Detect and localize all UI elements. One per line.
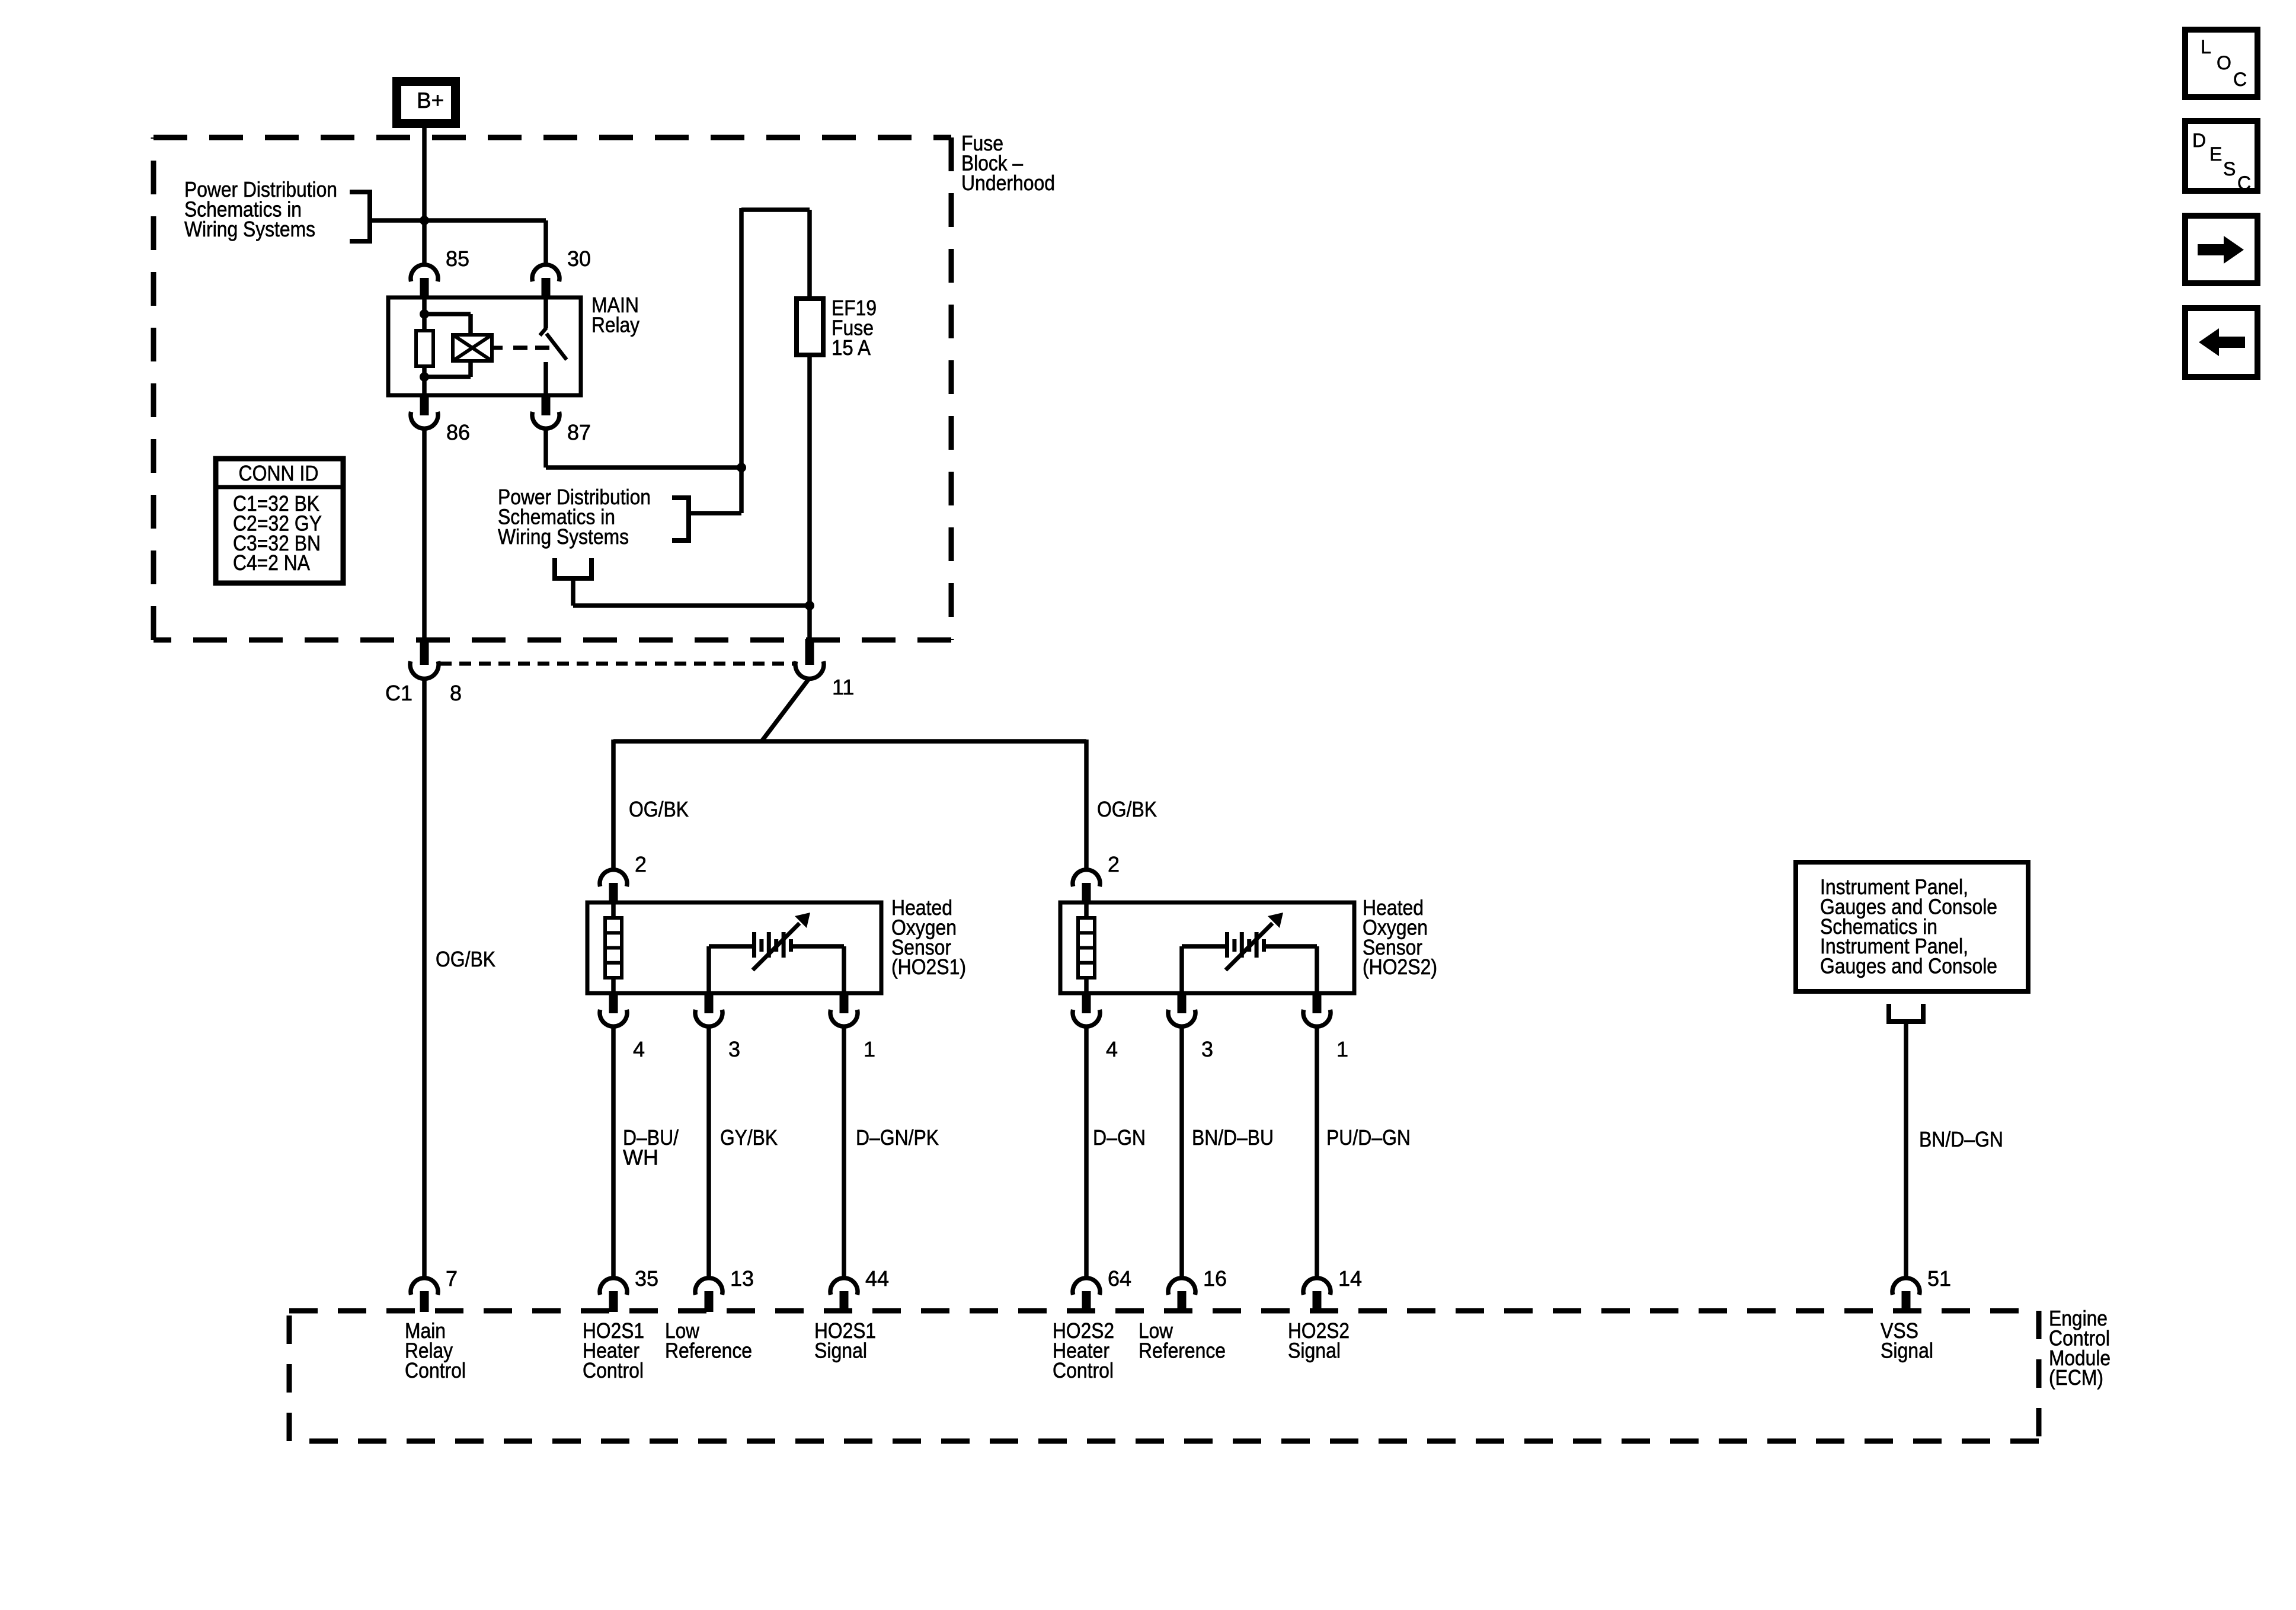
wire coil top link — [424, 314, 471, 337]
svg-text:14: 14 — [1338, 1266, 1362, 1291]
svg-text:64: 64 — [1108, 1266, 1131, 1291]
engine control module dashed box — [289, 1311, 2039, 1441]
label engine control module — [2049, 1306, 2110, 1390]
connector ID table — [216, 459, 343, 583]
svg-text:C1: C1 — [385, 681, 412, 705]
svg-text:3: 3 — [1201, 1037, 1213, 1061]
switch relay contact — [540, 297, 567, 395]
label HO2S2 — [1363, 895, 1437, 979]
svg-text:CONN ID: CONN ID — [239, 461, 319, 485]
wire fuse to pin 11 — [807, 355, 812, 641]
wire sense cell loop HO2S2 — [1182, 946, 1317, 993]
svg-text:86: 86 — [446, 420, 470, 444]
svg-text:4: 4 — [1106, 1037, 1118, 1061]
svg-text:D–GN/PK: D–GN/PK — [856, 1125, 939, 1150]
label HO2S1 signal — [814, 1318, 876, 1362]
svg-text:D–GN: D–GN — [1093, 1125, 1146, 1150]
svg-text:C: C — [2233, 69, 2247, 90]
label wire D-GN/PK — [856, 1125, 939, 1150]
fuse EF19 15A — [797, 299, 823, 355]
pin 11 connector C1 — [795, 639, 854, 699]
svg-text:Wiring Systems: Wiring Systems — [498, 524, 629, 549]
svg-text:OG/BK: OG/BK — [629, 797, 689, 821]
pin 8 connector C1 — [410, 639, 462, 705]
label HO2S1 heater control — [583, 1318, 644, 1382]
wire heater leads HO2S1 — [611, 902, 616, 993]
label connector C1 — [385, 681, 412, 705]
reference bracket instrument panel — [1886, 1004, 1926, 1024]
ECM pin 7 — [411, 1266, 458, 1312]
variable voltage cell HO2S1 — [753, 913, 810, 970]
svg-text:87: 87 — [567, 420, 591, 444]
ECM pin 64 — [1073, 1266, 1131, 1312]
wire OG/BK pin 8 to ECM pin 7 — [422, 678, 427, 1279]
wire pin 11 diagonal to sensor bus — [762, 678, 810, 741]
svg-text:S: S — [2223, 158, 2236, 180]
relay pin 30 — [532, 247, 591, 299]
svg-text:85: 85 — [446, 247, 469, 271]
wire HO2S1 heater control — [611, 1026, 616, 1279]
label wire OG/BK HO2S1 — [629, 797, 689, 821]
nav icon DESC — [2185, 121, 2257, 194]
svg-text:35: 35 — [635, 1266, 658, 1291]
ECM pin 14 — [1303, 1266, 1362, 1312]
wire drop to HO2S2 pin 2 — [1084, 740, 1089, 869]
label fuse EF19 — [832, 296, 877, 360]
heated oxygen sensor HO2S2 box — [1060, 902, 1354, 993]
svg-text:Reference: Reference — [665, 1338, 752, 1362]
wire bracket to pin 30 — [370, 220, 546, 264]
reference bracket power distribution (middle) — [672, 495, 689, 543]
svg-text:WH: WH — [623, 1145, 658, 1169]
svg-text:Signal: Signal — [1881, 1338, 1933, 1362]
label main relay control — [405, 1318, 466, 1382]
svg-text:C4=2 NA: C4=2 NA — [233, 550, 310, 575]
svg-text:PU/D–GN: PU/D–GN — [1326, 1125, 1411, 1150]
wire HO2S2 low reference — [1179, 1026, 1184, 1279]
svg-text:51: 51 — [1927, 1266, 1951, 1291]
svg-text:11: 11 — [832, 675, 854, 699]
wire HO2S1 low reference — [706, 1026, 711, 1279]
variable voltage cell HO2S2 — [1226, 913, 1283, 970]
svg-text:30: 30 — [567, 247, 591, 271]
wire riser to fuse top — [741, 208, 810, 513]
svg-text:Control: Control — [583, 1358, 644, 1382]
relay pin 85 — [411, 247, 469, 299]
svg-text:3: 3 — [728, 1037, 740, 1061]
nav icon arrow right — [2185, 216, 2257, 283]
HO2S1 pin 3 — [695, 992, 740, 1061]
svg-text:4: 4 — [633, 1037, 645, 1061]
svg-text:Underhood: Underhood — [961, 171, 1055, 195]
svg-text:Relay: Relay — [591, 312, 639, 337]
label wire GY/BK — [720, 1125, 778, 1150]
HO2S2 pin 1 — [1303, 992, 1348, 1061]
svg-text:Gauges and Console: Gauges and Console — [1820, 954, 1997, 978]
wire VSS signal — [1904, 1022, 1908, 1279]
label HO2S1 — [891, 895, 966, 979]
svg-text:7: 7 — [446, 1266, 458, 1291]
ECM pin 51 — [1892, 1266, 1951, 1312]
svg-text:OG/BK: OG/BK — [1097, 797, 1157, 821]
svg-text:Reference: Reference — [1139, 1338, 1226, 1362]
wire coil to switch dashed — [513, 345, 549, 350]
label low reference 1 — [665, 1318, 752, 1362]
wire coil bottom link — [424, 359, 471, 377]
HO2S2 pin 2 — [1073, 852, 1120, 904]
wire down bracket to fuse line — [573, 578, 810, 606]
node fuse line junction — [805, 601, 814, 610]
wire relay 87 to fuse feed — [546, 428, 741, 468]
HO2S1 pin 2 — [600, 852, 647, 904]
wire bracket middle to riser — [689, 511, 741, 516]
svg-text:E: E — [2209, 143, 2222, 165]
svg-text:16: 16 — [1203, 1266, 1227, 1291]
nav icon LOC — [2185, 30, 2257, 97]
svg-text:BN/D–GN: BN/D–GN — [1919, 1127, 2003, 1151]
svg-text:44: 44 — [865, 1266, 889, 1291]
ECM pin 13 — [695, 1266, 754, 1312]
label wire OG/BK left — [436, 947, 495, 971]
svg-text:C: C — [2237, 172, 2251, 194]
svg-text:O: O — [2217, 52, 2231, 73]
wire B+ to relay pin 85 — [422, 128, 427, 264]
label wire D-GN — [1093, 1125, 1146, 1150]
svg-text:L: L — [2201, 36, 2211, 57]
svg-text:Signal: Signal — [814, 1338, 867, 1362]
svg-text:D: D — [2192, 130, 2206, 151]
wire relay 86 to connector C1 pin 8 — [422, 428, 427, 641]
reference bracket power distribution (down) — [552, 558, 594, 578]
wire sensor feed bus — [613, 739, 1086, 744]
wire relay coil branch — [422, 297, 427, 331]
ECM pin 35 — [600, 1266, 658, 1312]
svg-text:1: 1 — [1336, 1037, 1348, 1061]
svg-text:Control: Control — [405, 1358, 466, 1382]
label low reference 2 — [1139, 1318, 1226, 1362]
HO2S1 pin 1 — [830, 992, 875, 1061]
relay pin 87 — [532, 394, 591, 444]
label wire D-BU/WH — [623, 1125, 679, 1169]
node relay coil bottom — [420, 372, 429, 382]
node fuse feed junction — [737, 463, 746, 472]
wire HO2S1 signal — [842, 1026, 846, 1279]
svg-text:8: 8 — [450, 681, 462, 705]
ECM pin 44 — [830, 1266, 889, 1312]
label wire PU/D-GN — [1326, 1125, 1411, 1150]
svg-text:BN/D–BU: BN/D–BU — [1192, 1125, 1274, 1150]
svg-text:13: 13 — [730, 1266, 754, 1291]
wire drop to HO2S1 pin 2 — [611, 740, 616, 869]
heated oxygen sensor HO2S1 box — [587, 902, 881, 993]
connector C1 dotted boundary — [440, 662, 795, 666]
wire resistor bottom — [422, 366, 427, 395]
label wire OG/BK HO2S2 — [1097, 797, 1157, 821]
label HO2S2 heater control — [1053, 1318, 1114, 1382]
relay MAIN Relay box — [388, 297, 581, 395]
relay pin 86 — [411, 394, 470, 444]
coil relay winding — [453, 335, 503, 361]
label wire BN/D-GN — [1919, 1127, 2003, 1151]
wire HO2S2 heater control — [1084, 1026, 1089, 1279]
nav icon arrow left — [2185, 308, 2257, 377]
svg-text:2: 2 — [1108, 852, 1120, 876]
svg-text:1: 1 — [864, 1037, 875, 1061]
svg-text:(HO2S2): (HO2S2) — [1363, 955, 1437, 979]
fuse block label — [961, 131, 1055, 195]
svg-text:2: 2 — [635, 852, 647, 876]
label wire BN/D-BU — [1192, 1125, 1274, 1150]
HO2S2 pin 3 — [1168, 992, 1213, 1061]
svg-text:(HO2S1): (HO2S1) — [891, 955, 966, 979]
ECM pin 16 — [1168, 1266, 1227, 1312]
svg-text:Signal: Signal — [1288, 1338, 1341, 1362]
svg-text:15 A: 15 A — [832, 335, 871, 360]
svg-text:Control: Control — [1053, 1358, 1114, 1382]
svg-text:GY/BK: GY/BK — [720, 1125, 778, 1150]
wire sense cell loop HO2S1 — [709, 946, 844, 993]
svg-text:Wiring Systems: Wiring Systems — [184, 217, 315, 241]
svg-text:OG/BK: OG/BK — [436, 947, 495, 971]
HO2S2 pin 4 — [1073, 992, 1118, 1061]
node junction B+ / feed wire — [420, 216, 429, 225]
resistor relay internal — [416, 331, 433, 366]
node relay coil top — [420, 309, 429, 319]
HO2S1 pin 4 — [600, 992, 645, 1061]
svg-text:B+: B+ — [417, 88, 444, 113]
wire HO2S2 signal — [1315, 1026, 1319, 1279]
label power distribution schematics (middle) — [498, 485, 651, 549]
heater element HO2S2 — [1078, 918, 1095, 978]
heater element HO2S1 — [605, 918, 622, 978]
wire heater leads HO2S2 — [1084, 902, 1089, 993]
label MAIN Relay — [591, 293, 639, 337]
fuse block underhood dashed box — [154, 137, 951, 640]
label HO2S2 signal — [1288, 1318, 1350, 1362]
svg-text:(ECM): (ECM) — [2049, 1365, 2103, 1390]
label power distribution schematics (top) — [184, 177, 337, 241]
label VSS signal — [1881, 1318, 1933, 1362]
instrument panel reference box — [1796, 862, 2028, 991]
reference bracket power distribution (top) — [350, 190, 370, 244]
battery feed B+ symbol — [392, 77, 460, 128]
